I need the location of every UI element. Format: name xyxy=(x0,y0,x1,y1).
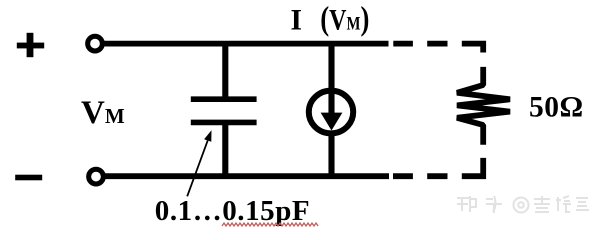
capacitor bottom lead wire xyxy=(222,122,228,176)
annotation arrow to capacitor plate xyxy=(187,130,211,196)
wire bottom dashed segment 2 xyxy=(427,173,447,179)
wire top (solid) xyxy=(104,41,389,47)
plus polarity symbol xyxy=(17,33,44,57)
minus polarity symbol xyxy=(15,175,42,181)
current source arrowhead xyxy=(321,113,343,131)
red spell-check squiggle under 0.15pF xyxy=(222,223,318,226)
terminal bottom-left (open circle) xyxy=(89,169,104,184)
current source U1 circle xyxy=(309,91,353,134)
svg-text:I: I xyxy=(291,5,302,37)
resistor R1 (50 ohm) zigzag with leads xyxy=(457,67,510,145)
wire top dashed corner segment xyxy=(462,44,483,53)
wire bottom (solid) xyxy=(105,173,389,179)
terminal top-left (open circle) xyxy=(88,36,103,51)
wire top dashed segment 1 xyxy=(393,41,413,47)
current source bottom lead wire xyxy=(328,133,334,176)
wire right-bottom dashed corner segment xyxy=(462,158,483,176)
wire top dashed segment 2 xyxy=(427,41,447,47)
svg-text:50Ω: 50Ω xyxy=(529,92,584,124)
capacitor top lead wire xyxy=(222,44,228,99)
wire bottom dashed segment 1 xyxy=(393,173,413,179)
capacitor C top plate xyxy=(191,96,257,102)
capacitor C bottom plate xyxy=(191,120,257,126)
current source top lead wire / arrow shaft xyxy=(328,44,334,114)
svg-text:(VM): (VM) xyxy=(320,0,369,37)
watermark zhihu @qinling nongmin (approximated light-gray strokes) xyxy=(457,196,589,213)
svg-text:0.1…0.15pF: 0.1…0.15pF xyxy=(155,195,310,227)
